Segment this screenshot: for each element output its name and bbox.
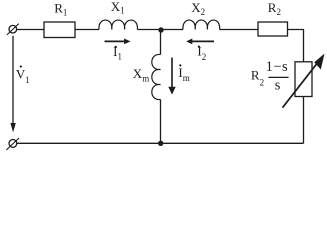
svg-text:R1: R1: [54, 0, 67, 17]
svg-text:Im: Im: [178, 65, 189, 83]
svg-text:I2: I2: [197, 44, 206, 62]
svg-text:R2: R2: [251, 68, 264, 88]
svg-text:R2: R2: [268, 0, 281, 17]
svg-text:s: s: [275, 78, 281, 94]
svg-text:I1: I1: [113, 44, 122, 61]
svg-text:X1: X1: [111, 0, 125, 16]
svg-text:V1: V1: [16, 67, 30, 85]
svg-text:X2: X2: [191, 0, 205, 17]
svg-text:Xm: Xm: [133, 66, 149, 84]
svg-text:1−s: 1−s: [266, 59, 289, 75]
